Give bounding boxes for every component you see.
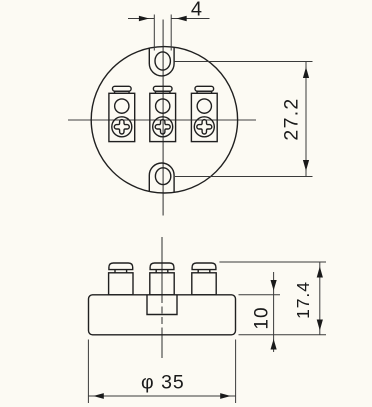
dimension dia35: dim line with arrows <box>88 395 235 397</box>
terminal 2 (middle) body <box>150 93 176 141</box>
screw 3 (right) head <box>192 263 216 270</box>
screw 2 (middle) head <box>150 263 174 270</box>
terminal 3 phillips cross <box>197 120 212 134</box>
terminal 2 (middle) cap <box>153 86 172 93</box>
terminal 1 (left) cap <box>113 86 132 93</box>
dimension 27.2: top leader line <box>175 61 313 63</box>
vertical centerline (side view) <box>161 237 163 296</box>
dimension 17.4: top extension line <box>219 261 326 263</box>
dimension 4: right dim line and arrow <box>171 18 209 20</box>
screw 1 block <box>109 273 133 295</box>
dimension 10: dim line with outside arrows <box>273 272 275 352</box>
vertical centerline (top view) <box>162 20 164 216</box>
terminal 3 wire hole <box>197 99 211 113</box>
top mounting lug <box>149 47 174 76</box>
screw 2 neck <box>155 270 157 273</box>
svg-text:17.4: 17.4 <box>293 281 313 319</box>
horizontal centerline (top view) <box>68 119 256 121</box>
terminal 3 screw head circle <box>194 117 214 137</box>
body (side view) <box>89 295 236 335</box>
screw 3 block <box>192 273 216 295</box>
terminal 3 (right) body <box>191 93 217 141</box>
svg-text:φ 35: φ 35 <box>141 372 185 394</box>
dimension 4: extension lines <box>153 15 155 51</box>
terminal 1 phillips cross <box>114 120 129 134</box>
bottom mounting lug <box>149 163 174 192</box>
screw 2 block <box>150 273 174 295</box>
body circle outline (top view, dia 35) <box>91 47 237 193</box>
svg-text:10: 10 <box>251 306 272 329</box>
terminal 1 wire hole <box>115 99 129 113</box>
shared bottom extension line <box>239 334 327 336</box>
center notch <box>147 295 177 315</box>
svg-text:27.2: 27.2 <box>280 97 302 140</box>
dimension 10: top extension line <box>239 294 281 296</box>
dimension 27.2: bottom leader line <box>175 176 313 178</box>
dimension dia35: left extension line <box>87 340 89 404</box>
terminal 3 (right) cap <box>195 86 214 93</box>
bottom mounting hole <box>155 168 170 185</box>
top mounting hole (dia 4) <box>155 52 170 70</box>
screw 1 (left) head <box>109 263 133 270</box>
screw 1 neck <box>114 270 116 273</box>
terminal 1 screw head circle <box>112 117 132 137</box>
terminal 2 screw head circle <box>153 117 173 137</box>
terminal 2 phillips cross <box>155 120 170 134</box>
dimension dia35: right extension line <box>235 340 237 404</box>
terminal 2 wire hole <box>156 99 170 113</box>
dimension 17.4: dim line with arrows <box>319 262 321 335</box>
dimension 4: left dim line and arrow <box>128 18 154 20</box>
svg-text:4: 4 <box>191 0 202 20</box>
terminal 1 (left) body <box>109 93 135 141</box>
dimension 27.2: dim line with arrows <box>305 62 307 177</box>
screw 3 neck <box>197 270 199 273</box>
